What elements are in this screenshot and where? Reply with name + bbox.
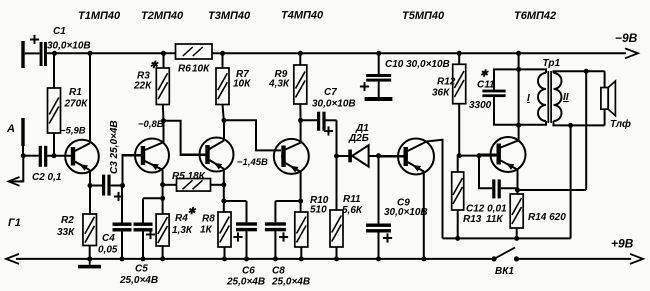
wire T1 collector to rail bbox=[88, 51, 93, 143]
label VK1 bbox=[495, 266, 514, 277]
svg-text:33К: 33К bbox=[57, 227, 75, 238]
wire secondary bottom to emitter line bbox=[568, 123, 573, 238]
svg-text:С2 0,1: С2 0,1 bbox=[32, 172, 62, 183]
wire to C1 bbox=[25, 52, 40, 54]
resistor R6 in rail bbox=[176, 44, 213, 59]
wire T3 emitter down bbox=[221, 169, 226, 212]
label Tr1 bbox=[543, 58, 561, 69]
emitter horizontal wire bbox=[518, 189, 587, 191]
wire C3 left bbox=[90, 185, 102, 187]
label T4MP40 bbox=[281, 10, 324, 22]
label C3 25,0x4V vertical bbox=[109, 120, 120, 174]
svg-text:510: 510 bbox=[310, 205, 327, 216]
wire T1 emitter down bbox=[88, 170, 93, 188]
label R5 18K bbox=[172, 171, 206, 182]
svg-text:С5: С5 bbox=[135, 264, 148, 275]
label C4 0,05 bbox=[98, 233, 118, 256]
resistor R1 bbox=[48, 53, 61, 155]
node T6 base bbox=[457, 153, 462, 158]
feedback line y238 bbox=[443, 236, 571, 241]
label C6 25,0x4V bbox=[226, 266, 265, 288]
capacitor C1 bbox=[30, 35, 47, 66]
svg-text:Т4МП40: Т4МП40 bbox=[281, 10, 324, 22]
svg-text:270К: 270К bbox=[64, 99, 89, 110]
wire T3 collector up bbox=[222, 118, 227, 141]
svg-text:С11: С11 bbox=[477, 80, 495, 91]
label R6 10K bbox=[178, 64, 210, 75]
svg-text:Г1: Г1 bbox=[8, 217, 21, 229]
svg-text:С10 30,0×10В: С10 30,0×10В bbox=[385, 59, 450, 70]
wire T6 emitter down bbox=[515, 169, 520, 194]
label -9V bbox=[615, 31, 638, 45]
svg-text:1К: 1К bbox=[200, 225, 213, 236]
bottom supply rail +9V left segment bbox=[6, 254, 494, 264]
svg-text:R6: R6 bbox=[178, 64, 191, 75]
capacitor C7 bbox=[301, 112, 337, 136]
svg-text:R1: R1 bbox=[69, 87, 82, 98]
resistor R14 bbox=[510, 194, 523, 238]
svg-text:А: А bbox=[6, 123, 15, 135]
label C11 3300 with star bbox=[469, 69, 495, 112]
capacitor C10 bbox=[360, 51, 393, 101]
transistor T2 bbox=[123, 139, 170, 173]
wire R3 node to T3 base bbox=[164, 121, 207, 155]
svg-text:✱: ✱ bbox=[480, 69, 489, 80]
svg-text:25,0×4В: 25,0×4В bbox=[226, 277, 265, 288]
svg-text:R13: R13 bbox=[463, 214, 482, 225]
svg-text:С1: С1 bbox=[53, 26, 66, 37]
transistor T3 bbox=[181, 138, 234, 172]
label R3 22K with star bbox=[133, 60, 160, 92]
capacitor C9 bbox=[366, 156, 392, 261]
svg-text:✱: ✱ bbox=[188, 206, 197, 217]
label R10 510 bbox=[310, 195, 329, 216]
svg-text:−0,8В: −0,8В bbox=[138, 119, 164, 130]
wire T5 collector path bbox=[427, 140, 443, 239]
wire T5 emitter down bbox=[421, 171, 426, 261]
terminal bar of C1 input bbox=[21, 41, 24, 68]
input node and wire bbox=[21, 146, 39, 158]
resistor R10 bbox=[295, 212, 308, 261]
wire detector to T5 base bbox=[379, 155, 405, 157]
svg-text:R12: R12 bbox=[437, 77, 456, 88]
node detector bbox=[376, 153, 381, 158]
label R9 4,3K bbox=[268, 69, 290, 90]
transistor T6 bbox=[479, 137, 526, 172]
wire C2 to T1 base bbox=[47, 153, 71, 158]
capacitor C5 bbox=[134, 198, 163, 261]
svg-text:5,6К: 5,6К bbox=[342, 205, 363, 216]
capacitor C4 bbox=[113, 186, 132, 262]
svg-text:Тр1: Тр1 bbox=[543, 58, 561, 69]
svg-text:4,3К: 4,3К bbox=[268, 79, 290, 90]
capacitor C6 bbox=[224, 201, 257, 261]
wire T2 collector up bbox=[163, 121, 165, 143]
wire T2 emitter down bbox=[160, 170, 165, 214]
svg-text:II: II bbox=[563, 92, 569, 103]
label T3MP40 bbox=[208, 10, 251, 22]
svg-text:10К: 10К bbox=[192, 64, 210, 75]
svg-text:Д2Б: Д2Б bbox=[348, 133, 369, 144]
resistor R12 bbox=[453, 51, 466, 156]
svg-text:I: I bbox=[527, 93, 530, 104]
label A bbox=[6, 123, 15, 135]
capacitor C8 bbox=[265, 201, 301, 261]
input terminal A bar bbox=[21, 118, 24, 146]
resistor R13 bbox=[452, 156, 464, 239]
svg-text:1,3К: 1,3К bbox=[172, 225, 193, 236]
svg-text:+9В: +9В bbox=[611, 237, 634, 251]
svg-text:−9В: −9В bbox=[615, 31, 638, 45]
input ground stub arrow bbox=[9, 156, 24, 186]
label Tlf bbox=[610, 118, 631, 130]
transistor T4 bbox=[274, 139, 309, 174]
label R14 620 bbox=[528, 212, 566, 223]
label R12 36K bbox=[432, 77, 456, 99]
resistor R4 bbox=[156, 214, 169, 261]
wire C7 down to R11 bbox=[334, 120, 339, 210]
label R4 1,3K with star bbox=[172, 206, 197, 236]
svg-text:С6: С6 bbox=[242, 266, 255, 277]
label T2 voltage -0,8V bbox=[138, 119, 164, 130]
label T1MP40 bbox=[78, 10, 121, 22]
label R13 11K bbox=[463, 214, 503, 225]
label C1 bbox=[53, 26, 66, 37]
label R11 5,6K bbox=[342, 194, 363, 216]
svg-text:−5,9В: −5,9В bbox=[60, 126, 86, 137]
diode D1 bbox=[337, 145, 379, 166]
svg-text:Т1МП40: Т1МП40 bbox=[78, 10, 121, 22]
svg-text:Т5МП40: Т5МП40 bbox=[402, 10, 445, 22]
resistor R8 bbox=[218, 212, 231, 261]
label T3 voltage -1,45V bbox=[237, 157, 268, 168]
label G1 bbox=[8, 217, 21, 229]
capacitor C3 bbox=[102, 175, 123, 202]
label D1 D2B bbox=[348, 123, 369, 144]
capacitor C11 bbox=[482, 69, 518, 124]
label +9V bbox=[611, 237, 634, 251]
transformer Tr1 secondary winding II bbox=[554, 71, 605, 125]
label C1 value 30,0x10V bbox=[47, 41, 91, 52]
transformer core bbox=[548, 71, 551, 123]
svg-text:Тлф: Тлф bbox=[610, 118, 631, 130]
label R7 10K bbox=[233, 69, 251, 90]
svg-text:0,05: 0,05 bbox=[98, 245, 118, 256]
resistor R3 bbox=[156, 51, 169, 121]
transistor T5 bbox=[379, 139, 435, 175]
capacitor C2 bbox=[39, 146, 48, 167]
node T2 collector R3 bbox=[161, 118, 166, 123]
transformer Tr1 primary winding I bbox=[519, 69, 546, 124]
label T2MP40 bbox=[141, 10, 184, 22]
svg-text:R11: R11 bbox=[343, 194, 361, 205]
ground symbol bbox=[78, 259, 101, 269]
svg-text:R2: R2 bbox=[61, 215, 74, 226]
svg-text:ВК1: ВК1 bbox=[495, 266, 514, 277]
label C9 bbox=[384, 198, 428, 219]
svg-text:22К: 22К bbox=[133, 81, 152, 92]
svg-text:С3 25,0×4В: С3 25,0×4В bbox=[109, 120, 120, 174]
svg-text:11К: 11К bbox=[486, 214, 503, 225]
svg-text:30,0×10В: 30,0×10В bbox=[312, 99, 356, 110]
wire node to T2 base bbox=[120, 155, 142, 188]
label R2 33K bbox=[57, 215, 75, 238]
bottom supply rail +9V right segment bbox=[517, 254, 644, 264]
svg-text:Т6МП42: Т6МП42 bbox=[514, 10, 556, 22]
svg-text:С7: С7 bbox=[324, 87, 337, 98]
svg-text:Т2МП40: Т2МП40 bbox=[141, 10, 184, 22]
label winding I bbox=[527, 93, 530, 104]
transistor T1 bbox=[65, 140, 99, 174]
svg-text:30,0×10В: 30,0×10В bbox=[47, 41, 91, 52]
label C2 0,1 bbox=[32, 172, 62, 183]
svg-text:36К: 36К bbox=[432, 88, 450, 99]
svg-text:−1,45В: −1,45В bbox=[237, 157, 268, 168]
svg-text:25,0×4В: 25,0×4В bbox=[119, 275, 158, 286]
top supply rail -9V bbox=[47, 48, 639, 58]
label C5 25,0x4V bbox=[119, 264, 158, 287]
label C8 25,0x4V bbox=[271, 266, 310, 288]
svg-text:3300: 3300 bbox=[469, 100, 492, 111]
svg-text:R14 620: R14 620 bbox=[528, 212, 566, 223]
svg-text:С8: С8 bbox=[272, 266, 285, 277]
label winding II bbox=[563, 92, 569, 103]
svg-text:30,0×10В: 30,0×10В bbox=[384, 207, 428, 218]
resistor R11 bbox=[330, 210, 343, 261]
svg-text:R4: R4 bbox=[175, 213, 188, 224]
wire T4 base Z bbox=[224, 120, 281, 150]
label R1 270K bbox=[64, 87, 89, 110]
label C12 0,01 bbox=[466, 204, 507, 215]
speaker Tlf bbox=[601, 71, 616, 125]
label T1 voltage -5,9V bbox=[60, 126, 86, 137]
resistor R5 bbox=[163, 179, 224, 192]
resistor R7 bbox=[216, 51, 229, 121]
label T6MP42 bbox=[514, 10, 556, 22]
svg-text:R8: R8 bbox=[202, 214, 215, 225]
wire to T6 base bbox=[459, 153, 497, 158]
svg-text:С4: С4 bbox=[102, 233, 115, 244]
label R8 1K bbox=[200, 214, 215, 236]
svg-text:С12 0,01: С12 0,01 bbox=[466, 204, 507, 215]
wire secondary top feedback bbox=[584, 69, 589, 190]
svg-text:Т3МП40: Т3МП40 bbox=[208, 10, 251, 22]
label C10 bbox=[385, 59, 450, 70]
wire T6 collector up to rail bbox=[516, 51, 521, 141]
wire T4 collector up bbox=[298, 118, 303, 143]
resistor R9 bbox=[294, 51, 307, 121]
wire T4 emitter down bbox=[298, 172, 303, 212]
svg-text:R5 18К: R5 18К bbox=[172, 171, 206, 182]
label T5MP40 bbox=[402, 10, 445, 22]
switch VK1 bbox=[491, 248, 519, 262]
svg-text:10К: 10К bbox=[233, 79, 251, 90]
capacitor C12 bbox=[479, 156, 518, 199]
node C1-rail-R1 bbox=[52, 51, 57, 56]
resistor R2 bbox=[83, 186, 97, 262]
svg-text:25,0×4В: 25,0×4В bbox=[271, 277, 310, 288]
label C7 bbox=[312, 87, 356, 110]
wire C3 right bbox=[111, 185, 123, 187]
